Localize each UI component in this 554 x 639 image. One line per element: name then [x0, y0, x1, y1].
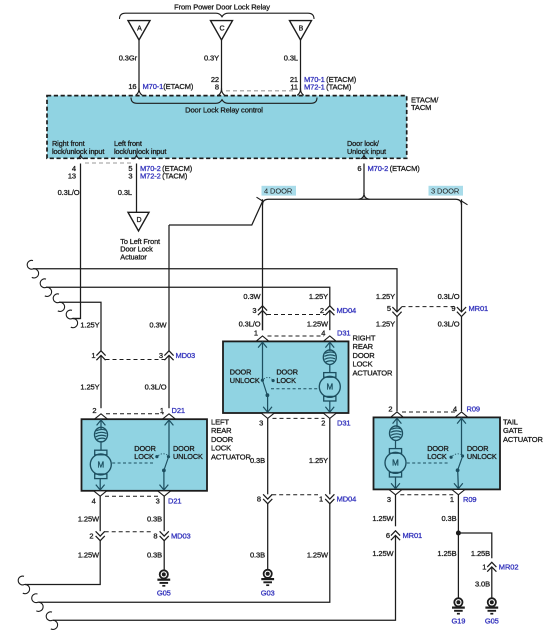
svg-text:0.3W: 0.3W [149, 321, 167, 330]
svg-text:DOOR: DOOR [211, 435, 234, 444]
pin exit wishbone at relay pin 5/3 [133, 154, 140, 159]
svg-text:GATE: GATE [503, 426, 523, 435]
svg-text:0.3L/O: 0.3L/O [58, 188, 80, 197]
svg-text:D21: D21 [172, 406, 185, 415]
svg-text:4 DOOR: 4 DOOR [264, 187, 293, 196]
svg-text:R09: R09 [463, 495, 476, 504]
svg-text:M72-2 (TACM): M72-2 (TACM) [140, 172, 188, 181]
svg-text:1.25W: 1.25W [372, 514, 394, 523]
svg-text:0.3Y: 0.3Y [204, 54, 219, 63]
svg-text:2: 2 [388, 405, 392, 414]
svg-text:4: 4 [92, 497, 96, 506]
svg-text:RIGHT: RIGHT [353, 334, 376, 343]
label 3 DOOR [429, 186, 464, 196]
svg-text:D31: D31 [337, 419, 350, 428]
dashed pair line MD03 [106, 359, 165, 361]
pin row R09 bottom of tail gate actuator [387, 489, 477, 504]
svg-text:UNLOCK: UNLOCK [467, 452, 497, 461]
svg-text:1.25W: 1.25W [307, 320, 329, 329]
svg-text:G05: G05 [157, 589, 171, 598]
motor M of tail gate actuator [385, 449, 406, 477]
svg-text:R09: R09 [467, 405, 480, 414]
text Left front lock/unlock input [114, 139, 166, 156]
svg-text:5: 5 [387, 304, 391, 313]
svg-text:3: 3 [259, 419, 263, 428]
alternate-connector dashed link pin 4 to pin 5 [85, 162, 132, 164]
arrow out of box at D31 pin 2 [325, 407, 334, 412]
svg-text:1.25W: 1.25W [372, 549, 394, 558]
svg-text:G03: G03 [261, 589, 275, 598]
continuation wire to MD03 pin 1 (1.25Y) [59, 302, 101, 351]
connector MR01 pin 5 [387, 304, 402, 317]
wire motor to bottom pin 3 [395, 477, 397, 489]
svg-text:ACTUATOR: ACTUATOR [503, 435, 543, 444]
text TAIL GATE ACTUATOR [503, 418, 543, 444]
pin row D21 bottom of left rear actuator [92, 491, 182, 506]
svg-text:0.3L/O: 0.3L/O [239, 320, 261, 329]
svg-text:M70-2 (ETACM): M70-2 (ETACM) [368, 164, 421, 173]
svg-text:1.25B: 1.25B [471, 549, 490, 558]
svg-text:0.3B: 0.3B [250, 551, 265, 560]
wire break squiggle S1 [27, 260, 38, 278]
svg-text:G19: G19 [451, 617, 465, 626]
svg-text:1.25Y: 1.25Y [376, 320, 395, 329]
right rear door lock actuator box [223, 341, 349, 413]
arrow into box at D31 pin 1 [258, 342, 267, 347]
svg-text:MR02: MR02 [499, 563, 519, 572]
wire inside box pin1 down to switch contact [168, 419, 170, 455]
output triangle D to left front door lock actuator [128, 212, 149, 231]
arrow out of box at R09 pin 3 [391, 483, 400, 488]
corner tick at 3 DOOR node [462, 201, 468, 205]
dashed pair line MD04 [267, 314, 325, 316]
wire 1.25Y from MD03 pin1 to D21 pin2 [100, 356, 102, 409]
svg-text:LOCK: LOCK [276, 376, 296, 385]
connector triangle B (from power door lock relay) [290, 21, 312, 40]
pin row R09 top of tail gate actuator [388, 405, 480, 418]
svg-text:2: 2 [321, 419, 325, 428]
svg-text:2: 2 [92, 406, 96, 415]
svg-text:2: 2 [89, 532, 93, 541]
wire 0.3B from D21 pin3 to MD03 pin8 [163, 496, 165, 531]
wire 0.3W branch down to MD03 pin 3 [168, 225, 170, 351]
wire inside box pin4 to coil [329, 341, 331, 351]
svg-text:0.3B: 0.3B [147, 551, 162, 560]
ground G03 [261, 570, 274, 586]
wire from relay pin 6 down to 4door/3door split [363, 164, 365, 195]
wire break squiggle bottom S2 [32, 594, 43, 612]
ground G19 [452, 598, 465, 614]
wire 1.25W from R09 pin3 to MR01 pin6 [395, 495, 397, 527]
dashed pair line MD04 bottom [272, 494, 318, 496]
wire break squiggle S3 [53, 294, 64, 312]
wire switch common to bottom pin 3 [267, 395, 269, 413]
svg-text:TAIL: TAIL [503, 418, 518, 427]
svg-text:8: 8 [153, 532, 157, 541]
svg-text:1: 1 [91, 351, 95, 360]
brace under title [120, 13, 315, 19]
arrow into box at D31 pin 4 [325, 342, 334, 347]
module name ETACM/TACM [411, 96, 439, 113]
svg-text:LOCK: LOCK [353, 360, 373, 369]
wire 1.25W from MD03 pin2 to break [25, 541, 100, 585]
dashed pair line MR01 [402, 306, 458, 308]
pin row D31 top of right rear actuator [254, 329, 351, 342]
svg-text:DOOR: DOOR [353, 351, 376, 360]
svg-text:0.3L: 0.3L [284, 54, 298, 63]
pin exit wishbone at relay pin 4/13 [77, 154, 84, 159]
connector MR01 pin 6 (up) [386, 531, 400, 540]
svg-text:1: 1 [482, 563, 486, 572]
svg-text:0.3L/O: 0.3L/O [145, 383, 167, 392]
svg-text:2: 2 [320, 306, 324, 315]
corner tick at 4 DOOR node [257, 197, 263, 201]
motor M of left rear actuator [90, 450, 111, 478]
svg-text:0.3B: 0.3B [441, 514, 456, 523]
tail gate actuator box [374, 417, 501, 489]
pin row D31 bottom of right rear actuator [259, 413, 350, 428]
wire 1.25W from MD04 pin2 to D31 pin4 [329, 311, 331, 331]
wire coil to motor [100, 441, 102, 450]
pin row D21 top of left rear actuator [92, 406, 185, 419]
coil of tail gate actuator [390, 426, 403, 441]
wire 0.3L/O from MR01 pin9 to tailgate R09 pin4 [461, 316, 463, 411]
arrow into box at R09 pin 4 [457, 418, 466, 423]
svg-text:0.3L: 0.3L [118, 188, 132, 197]
svg-text:G05: G05 [485, 617, 499, 626]
wire 0.3L left front input, pin 3 down to triangle D [136, 164, 138, 213]
svg-text:1.25Y: 1.25Y [80, 383, 99, 392]
alternate-connector dashed link pin 8 to pin 11 [226, 90, 296, 92]
wire 0.3L/O from MD04 pin3 to D31 pin1 [262, 311, 264, 331]
branch wire to MR02 [458, 533, 491, 558]
connector triangle C (from power door lock relay) [211, 21, 233, 40]
svg-text:4: 4 [321, 329, 325, 338]
svg-text:1.25Y: 1.25Y [309, 456, 328, 465]
wire coil to motor [395, 440, 397, 449]
svg-text:Door Lock Relay control: Door Lock Relay control [185, 106, 263, 115]
junction node [456, 531, 461, 536]
text LEFT REAR DOOR LOCK ACTUATOR [211, 418, 251, 462]
svg-text:MR01: MR01 [469, 304, 489, 313]
label 4 DOOR [262, 186, 297, 196]
mechanical dashed link motor to switch [407, 462, 449, 464]
svg-text:REAR: REAR [353, 342, 374, 351]
arrow into box at R09 pin 2 [393, 418, 402, 423]
svg-text:From Power Door Lock Relay: From Power Door Lock Relay [174, 3, 270, 12]
connector MD03 pin 2 (down) [89, 531, 104, 540]
svg-text:0.3L/O: 0.3L/O [438, 320, 460, 329]
svg-text:MR01: MR01 [403, 531, 423, 540]
text RIGHT REAR DOOR LOCK ACTUATOR [353, 334, 393, 378]
connector MR02 pin 1 (up) [482, 562, 496, 571]
wire break squiggle S4 [66, 310, 77, 328]
wire 4 DOOR drop down to MD04 pin 3 and D31 pin 1 [262, 199, 264, 330]
connector MD04 pin 1 (down) [319, 494, 334, 503]
left rear door lock actuator box [82, 419, 208, 491]
wire 0.3B from MD04 pin8 to ground G03 [267, 504, 269, 571]
svg-text:0.3B: 0.3B [250, 456, 265, 465]
wire break squiggle S2 [40, 279, 51, 297]
switch of tail gate actuator: DOOR LOCK / DOOR UNLOCK [427, 444, 497, 472]
wire 0.3L from triangle B to relay pin 21/11 [297, 40, 304, 95]
svg-text:13: 13 [68, 172, 76, 181]
wire 1.25W from D21 pin4 to MD03 pin2 [99, 496, 101, 531]
text Door lock/Unlock input [347, 139, 386, 156]
connector MD04 pin 2 [320, 306, 334, 315]
svg-text:1: 1 [319, 495, 323, 504]
dashed pair line MD03 bottom [105, 531, 153, 533]
wire motor to bottom pin 4 [99, 479, 101, 491]
svg-text:0.3B: 0.3B [147, 515, 162, 524]
svg-text:3: 3 [156, 497, 160, 506]
continuation wire stub from pin13 wire [72, 318, 81, 320]
svg-text:1.25Y: 1.25Y [376, 292, 395, 301]
wire 1.25Y from D31 pin2 to MD04 pin1 [329, 418, 331, 494]
svg-text:B: B [299, 26, 304, 33]
svg-text:TACM: TACM [411, 103, 431, 112]
svg-text:lock/unlock input: lock/unlock input [114, 147, 166, 156]
svg-text:D21: D21 [168, 497, 181, 506]
wire 0.3Y from triangle C to relay pin 22/8 [218, 40, 225, 95]
switch of right rear actuator: DOOR UNLOCK / DOOR LOCK [230, 368, 298, 398]
svg-text:C: C [219, 26, 224, 33]
svg-text:UNLOCK: UNLOCK [173, 452, 203, 461]
svg-text:9: 9 [451, 304, 455, 313]
continuation wire to MR01 pin 5 (1.25Y) [33, 269, 397, 311]
arrow out of box at D21 pin 4 [96, 485, 105, 490]
svg-text:Unlock input: Unlock input [347, 147, 386, 156]
wire 1.25W from MD04 pin1 down then left to break [39, 504, 330, 603]
svg-text:3: 3 [128, 172, 132, 181]
wire 0.3L/O from MD03 pin3 to D21 pin1 [168, 356, 170, 409]
mechanical dashed link motor to switch [112, 462, 153, 464]
wire 0.3Gr from triangle A to relay pin 16 [136, 40, 143, 95]
motor M of right rear actuator [319, 373, 340, 401]
wire 0.3B from MD03 pin8 to ground G05 [163, 541, 165, 571]
wire break squiggle bottom S1 [18, 576, 29, 594]
switch of left rear actuator: DOOR LOCK / DOOR UNLOCK [134, 444, 203, 473]
svg-text:1.25W: 1.25W [78, 551, 100, 560]
pin exit wishbone at relay pin 6 [361, 154, 368, 159]
connector MR01 pin 9 [451, 304, 466, 317]
svg-text:0.3W: 0.3W [243, 292, 261, 301]
continuation wire to MD04 pin 2 (1.25Y) [46, 287, 330, 306]
svg-text:UNLOCK: UNLOCK [230, 376, 260, 385]
connector MD04 pin 3 [252, 306, 267, 315]
svg-text:ACTUATOR: ACTUATOR [211, 452, 251, 461]
wire 1.25B junction to ground G19 [457, 533, 459, 598]
svg-text:LOCK: LOCK [211, 444, 231, 453]
svg-text:0.3Gr: 0.3Gr [119, 54, 138, 63]
svg-text:16: 16 [128, 82, 136, 91]
wire motor to bottom pin 2 [329, 401, 331, 413]
wire coil to motor [329, 364, 331, 373]
svg-text:3 DOOR: 3 DOOR [431, 187, 460, 196]
wire inside box pin1 down to switch contact [262, 341, 264, 379]
diagonal from 4 DOOR node to left rear branch [169, 202, 263, 226]
svg-text:MD03: MD03 [171, 532, 191, 541]
split wishbone at pin6 wire [359, 193, 370, 199]
svg-text:3: 3 [159, 351, 163, 360]
svg-text:1: 1 [254, 329, 258, 338]
svg-text:Actuator: Actuator [120, 252, 147, 261]
svg-text:3: 3 [387, 495, 391, 504]
svg-text:6: 6 [357, 164, 361, 173]
wire inside box pin2 to coil [100, 419, 102, 429]
connector MD03 pin 1 [91, 351, 105, 360]
wire break squiggle bottom S3 [46, 612, 57, 630]
connector MD03 pin 8 (down) [153, 531, 168, 540]
arrow into box at D21 pin 2 [97, 420, 106, 425]
ground G05 left [157, 570, 170, 586]
svg-text:1.25B: 1.25B [437, 549, 456, 558]
coil of left rear actuator [95, 427, 108, 442]
wire 0.3B from D31 pin3 to MD04 pin8 [267, 418, 269, 494]
svg-text:3.0B: 3.0B [475, 579, 490, 588]
svg-text:LOCK: LOCK [427, 452, 447, 461]
wire inside box pin2 to coil [396, 417, 398, 427]
svg-text:MD04: MD04 [337, 495, 357, 504]
text To Left Front Door Lock Actuator [120, 237, 160, 262]
ETACM/TACM module box: Door Lock Relay control [47, 96, 407, 159]
svg-text:ACTUATOR: ACTUATOR [353, 368, 393, 377]
svg-text:A: A [137, 26, 142, 33]
wire inside box pin4 down to switch contact [461, 417, 463, 455]
svg-text:3: 3 [252, 306, 256, 315]
svg-text:1.25Y: 1.25Y [309, 292, 328, 301]
svg-text:1.25Y: 1.25Y [80, 321, 99, 330]
wire switch common to bottom pin 3 [163, 470, 165, 490]
svg-text:1.25W: 1.25W [307, 551, 329, 560]
brace inside module box top [131, 98, 317, 104]
svg-text:M70-1(ETACM): M70-1(ETACM) [143, 82, 194, 91]
svg-text:MD03: MD03 [176, 351, 196, 360]
wire 0.3B from R09 pin1 to junction [457, 495, 459, 533]
arrow out of box at D31 pin 3 [263, 407, 272, 412]
svg-text:LOCK: LOCK [134, 452, 154, 461]
wire bus between 4 DOOR and 3 DOOR drops [263, 199, 462, 205]
svg-text:LEFT: LEFT [211, 418, 229, 427]
svg-text:D: D [136, 217, 141, 224]
mechanical dashed link switch to motor [271, 388, 319, 390]
coil of right rear actuator [323, 350, 336, 365]
svg-text:D31: D31 [337, 329, 350, 338]
wire switch common to bottom pin 1 [457, 470, 460, 489]
ground G05 right [485, 598, 498, 614]
svg-text:6: 6 [386, 531, 390, 540]
svg-text:M72-1 (TACM): M72-1 (TACM) [304, 83, 352, 92]
svg-text:1: 1 [450, 495, 454, 504]
wire 1.25W from MR01 pin6 down then left to break [53, 536, 396, 621]
wire 3.0B from MR02 pin1 to ground G05 [491, 567, 493, 598]
connector MD03 pin 3 [159, 351, 174, 360]
svg-text:REAR: REAR [211, 426, 232, 435]
arrow out of box at R09 pin 1 [454, 483, 463, 488]
svg-text:1.25W: 1.25W [78, 515, 100, 524]
connector triangle A (from power door lock relay) [128, 21, 150, 40]
svg-text:8: 8 [257, 495, 261, 504]
svg-text:11: 11 [290, 83, 298, 92]
connector MD04 pin 8 (down) [257, 494, 272, 503]
wire 3 DOOR drop down to MR01 pin 9 [461, 199, 463, 311]
arrow into box at D21 pin 1 [165, 420, 174, 425]
svg-text:MD04: MD04 [337, 306, 357, 315]
svg-text:8: 8 [215, 83, 219, 92]
wire 0.3L/O right front input, pin 13 down then left to break [73, 164, 81, 319]
svg-text:0.3L/O: 0.3L/O [438, 292, 460, 301]
arrow out of box at D21 pin 3 [160, 485, 169, 490]
text Right front lock/unlock input [52, 139, 104, 156]
wire 1.25Y from MR01 pin5 to tailgate R09 pin2 [396, 316, 398, 411]
svg-text:lock/unlock input: lock/unlock input [52, 147, 104, 156]
